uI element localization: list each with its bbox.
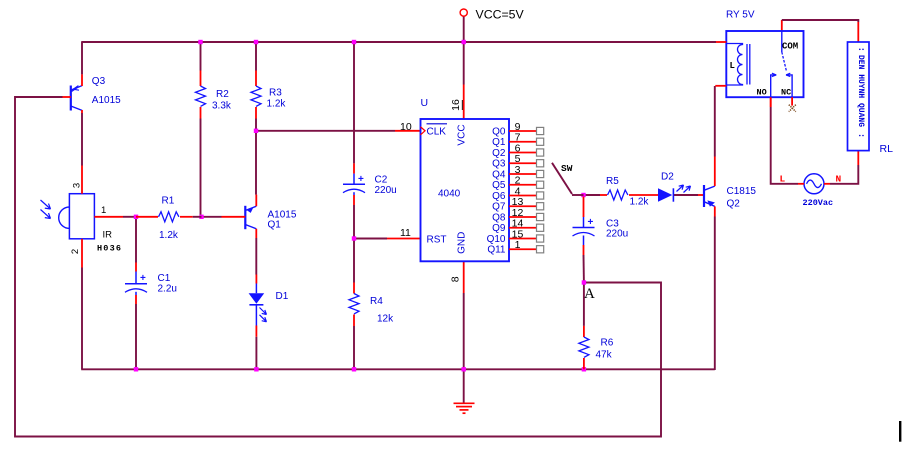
junction [582, 367, 586, 371]
svg-text:11: 11 [400, 227, 411, 239]
switch SW [552, 163, 584, 195]
wire [583, 255, 585, 283]
svg-text:+: + [588, 217, 594, 228]
svg-text:Q1: Q1 [268, 220, 282, 231]
junction [352, 367, 356, 371]
svg-text:Q1: Q1 [492, 137, 506, 148]
wire [200, 42, 202, 71]
cursor mark [899, 421, 901, 442]
svg-text:R3: R3 [269, 88, 282, 99]
svg-text:10: 10 [400, 121, 412, 133]
svg-text:2.2u: 2.2u [158, 284, 177, 295]
svg-text:Q7: Q7 [492, 202, 506, 213]
svg-text:Q3: Q3 [492, 159, 506, 170]
transistor Q1 [222, 195, 297, 238]
svg-text:R4: R4 [370, 296, 383, 307]
junction [199, 215, 203, 219]
svg-text:1.2k: 1.2k [159, 230, 179, 241]
svg-text:Q10: Q10 [487, 234, 506, 245]
junction [254, 129, 258, 133]
wire [200, 119, 202, 218]
svg-text:47k: 47k [596, 350, 613, 361]
wire [463, 293, 465, 369]
transistor Q2 [704, 157, 756, 217]
svg-text:R5: R5 [606, 176, 619, 187]
svg-text:4040: 4040 [438, 188, 461, 199]
wire [123, 216, 136, 218]
svg-text:C1: C1 [158, 273, 171, 284]
svg-text:D1: D1 [276, 291, 289, 302]
junction [582, 280, 586, 284]
svg-text:VCC=5V: VCC=5V [476, 8, 525, 22]
svg-text:Q5: Q5 [492, 180, 506, 191]
svg-text:COM: COM [782, 41, 798, 51]
capacitor C2 [343, 163, 397, 205]
wire [135, 217, 137, 263]
resistor R4 [349, 283, 394, 327]
wire [463, 369, 465, 403]
node A [584, 286, 595, 302]
power VCC=5V [460, 8, 524, 22]
svg-text:16: 16 [450, 99, 462, 111]
svg-text:Q3: Q3 [92, 76, 106, 87]
svg-text:RST: RST [427, 234, 447, 245]
junction [134, 367, 138, 371]
wire [857, 151, 859, 165]
IC U1 4040 counter [400, 97, 544, 282]
svg-text:L: L [780, 174, 786, 185]
wire [81, 41, 83, 74]
wire [463, 261, 465, 293]
wire [255, 42, 257, 71]
svg-text:SW: SW [561, 163, 573, 174]
junction [254, 40, 258, 44]
wire [202, 216, 222, 218]
svg-text:220Vac: 220Vac [803, 198, 834, 208]
svg-text:Q6: Q6 [492, 191, 506, 202]
wire [463, 85, 465, 120]
wire [81, 268, 83, 370]
resistor R3 [251, 71, 286, 119]
wire [15, 97, 661, 437]
resistor R1 [136, 196, 202, 242]
svg-text:U: U [421, 97, 429, 109]
LED D1 [249, 275, 289, 337]
relay RY 5V [715, 9, 803, 107]
svg-text:Q2: Q2 [492, 148, 506, 159]
wire [255, 238, 257, 275]
LED D2 [658, 172, 691, 202]
junction [581, 193, 585, 197]
svg-text:R6: R6 [601, 338, 614, 349]
svg-text:NC: NC [781, 88, 791, 98]
svg-text:+: + [358, 174, 364, 185]
svg-text:VCC: VCC [457, 124, 468, 145]
svg-text:C2: C2 [375, 175, 388, 186]
svg-text:RL: RL [880, 143, 894, 155]
wire [81, 113, 83, 166]
capacitor C1 [125, 263, 177, 305]
wire [674, 194, 698, 196]
svg-text:3.3k: 3.3k [212, 101, 232, 112]
junction [134, 215, 138, 219]
svg-text:L: L [730, 61, 735, 71]
svg-text:R2: R2 [216, 89, 229, 100]
AC source 220Vac [780, 174, 842, 209]
wire [782, 20, 859, 22]
svg-text:NO: NO [757, 88, 767, 98]
wire [82, 41, 716, 43]
resistor R5 [600, 176, 658, 208]
junction [462, 367, 466, 371]
svg-text:DEN HUYNH QUANG: DEN HUYNH QUANG [856, 55, 865, 127]
svg-text:Q11: Q11 [487, 245, 506, 256]
svg-text:Q9: Q9 [492, 223, 506, 234]
svg-text:CLK: CLK [427, 127, 447, 138]
svg-text:+: + [140, 273, 146, 284]
transistor Q3 [63, 74, 122, 113]
capacitor C3 [573, 197, 629, 256]
no-connect X [789, 105, 796, 112]
wire [771, 107, 798, 184]
wire [354, 238, 387, 240]
IR receiver H036 [41, 166, 124, 268]
wire [830, 165, 858, 184]
svg-text:R1: R1 [162, 196, 175, 207]
wire [714, 217, 716, 371]
wire [463, 16, 465, 42]
wire [256, 130, 395, 132]
ground [454, 403, 475, 413]
svg-text:Q0: Q0 [492, 126, 506, 137]
junction [198, 40, 202, 44]
wire [770, 97, 772, 107]
svg-text:1: 1 [101, 205, 106, 216]
wire [255, 337, 257, 370]
resistor R6 [579, 326, 614, 369]
svg-text:Q8: Q8 [492, 212, 506, 223]
wire [135, 304, 137, 369]
wire [353, 42, 355, 163]
junction [462, 40, 466, 44]
svg-text:RY 5V: RY 5V [726, 9, 755, 20]
svg-text:GND: GND [457, 232, 468, 254]
wire [353, 205, 355, 283]
svg-text:220u: 220u [375, 185, 397, 196]
svg-text:12k: 12k [377, 314, 394, 325]
wire [583, 283, 585, 326]
resistor R2 [196, 71, 232, 119]
svg-text:2: 2 [70, 249, 81, 254]
wire [395, 130, 421, 132]
svg-text:1.2k: 1.2k [630, 197, 650, 208]
svg-text:A1015: A1015 [92, 95, 121, 106]
svg-text:Q4: Q4 [492, 169, 506, 180]
lamp RL [848, 42, 894, 155]
svg-text:1: 1 [515, 239, 521, 251]
wire [857, 22, 859, 42]
junction [254, 367, 258, 371]
wire [463, 42, 465, 85]
wire [353, 326, 355, 369]
svg-text:1.2k: 1.2k [267, 99, 287, 110]
svg-text:Q2: Q2 [727, 199, 741, 210]
wire [584, 194, 601, 196]
wire [81, 368, 715, 370]
wire [387, 238, 421, 240]
wire [781, 20, 783, 31]
junction [352, 236, 356, 240]
svg-text:IR: IR [103, 230, 113, 241]
svg-text:N: N [836, 174, 842, 185]
wire [255, 119, 257, 195]
wire [714, 86, 716, 157]
svg-text:A: A [584, 286, 595, 302]
svg-text:C1815: C1815 [727, 186, 757, 197]
svg-text:D2: D2 [661, 172, 674, 183]
svg-text:H036: H036 [97, 244, 122, 254]
junction [352, 40, 356, 44]
svg-text:220u: 220u [606, 229, 628, 240]
svg-text:8: 8 [450, 276, 462, 282]
svg-text:3: 3 [72, 183, 83, 188]
wire [698, 194, 704, 196]
